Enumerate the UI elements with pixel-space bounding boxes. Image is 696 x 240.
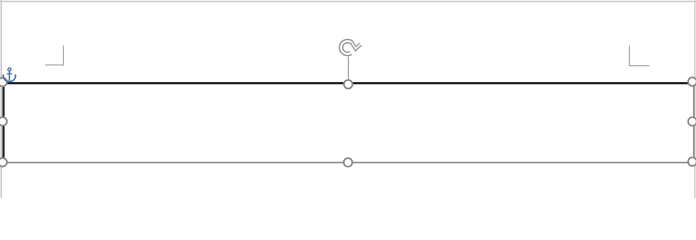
handle bottom-left (0, 158, 7, 167)
handle bottom-center (344, 158, 353, 167)
handle bottom-right (688, 157, 696, 166)
rotation handle stem (347, 57, 349, 80)
handle mid-left (0, 117, 7, 126)
page border top (0, 0, 696, 2)
rotation handle icon (341, 41, 361, 54)
margin crop mark top-right (629, 46, 649, 66)
handle top-center (344, 80, 353, 89)
page border left (0, 0, 2, 198)
page border right (694, 0, 696, 198)
object anchor icon (3, 68, 17, 81)
margin crop mark top-left (45, 45, 63, 65)
handle top-left (0, 78, 7, 87)
handle mid-right (688, 117, 696, 126)
selected frame right edge (693, 82, 695, 163)
selected frame left edge (2, 82, 4, 163)
selected frame top edge (2, 82, 693, 84)
handle top-right (688, 77, 696, 86)
selected frame bottom edge (2, 162, 694, 164)
